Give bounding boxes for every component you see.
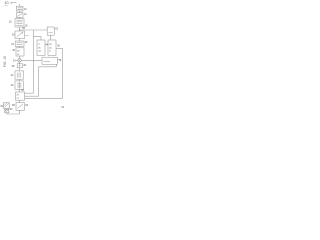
- component 58 output stage: [12, 103, 29, 111]
- PLL divider left box: [37, 40, 45, 55]
- wire vertical return right x62.5: [62, 48, 64, 98]
- wire top box to divider y35-40: [50, 35, 52, 40]
- wire main chain vertical: [19, 4, 21, 110]
- wire horizontal into detector y96: [25, 95, 39, 97]
- svg-text:fr: fr: [38, 43, 40, 46]
- svg-text:FIG. 15: FIG. 15: [3, 56, 7, 67]
- component 38 small stage: [12, 64, 27, 68]
- wire wide box bottom tick: [55, 64, 57, 67]
- wire long bottom return y98: [25, 97, 63, 99]
- node junction at y60: [19, 60, 20, 61]
- wire horizontal into detector box y93: [25, 92, 34, 94]
- PLL wide box 58: [42, 57, 62, 64]
- label 10 with leader arrow: [5, 1, 17, 6]
- component 42 resonator: [11, 71, 24, 79]
- transducer 62 bottom-left: [0, 103, 13, 113]
- wire vertical return mid x38.6: [38, 67, 40, 96]
- wire stub y36.6: [34, 37, 42, 40]
- component 12 input stage: [16, 6, 27, 11]
- component 30 block: [12, 48, 24, 56]
- wire branch to PLL top (node at y30): [20, 29, 48, 31]
- component 20 amplifier: [12, 31, 29, 39]
- component 46 block: [11, 81, 24, 89]
- component 14 filter: [16, 13, 27, 18]
- summing node 34 on chain: [13, 59, 21, 63]
- svg-text:ct: ct: [17, 97, 19, 100]
- node junction at y30: [19, 30, 20, 31]
- component 16 ladder block: [9, 19, 28, 28]
- component 24 dual stage: [11, 41, 28, 47]
- wire vertical return left x33.5: [33, 30, 35, 93]
- PLL top box 52: [47, 27, 59, 35]
- wire horizontal under wide box y66.8: [39, 66, 57, 68]
- wire divider output right y48: [56, 47, 63, 49]
- wire chain to wide box y60: [20, 59, 43, 61]
- component 50 detector: [16, 89, 25, 100]
- PLL divider right box: [48, 40, 56, 55]
- wire bottom L to transducer: [7, 110, 20, 114]
- svg-text:10: 10: [5, 1, 9, 5]
